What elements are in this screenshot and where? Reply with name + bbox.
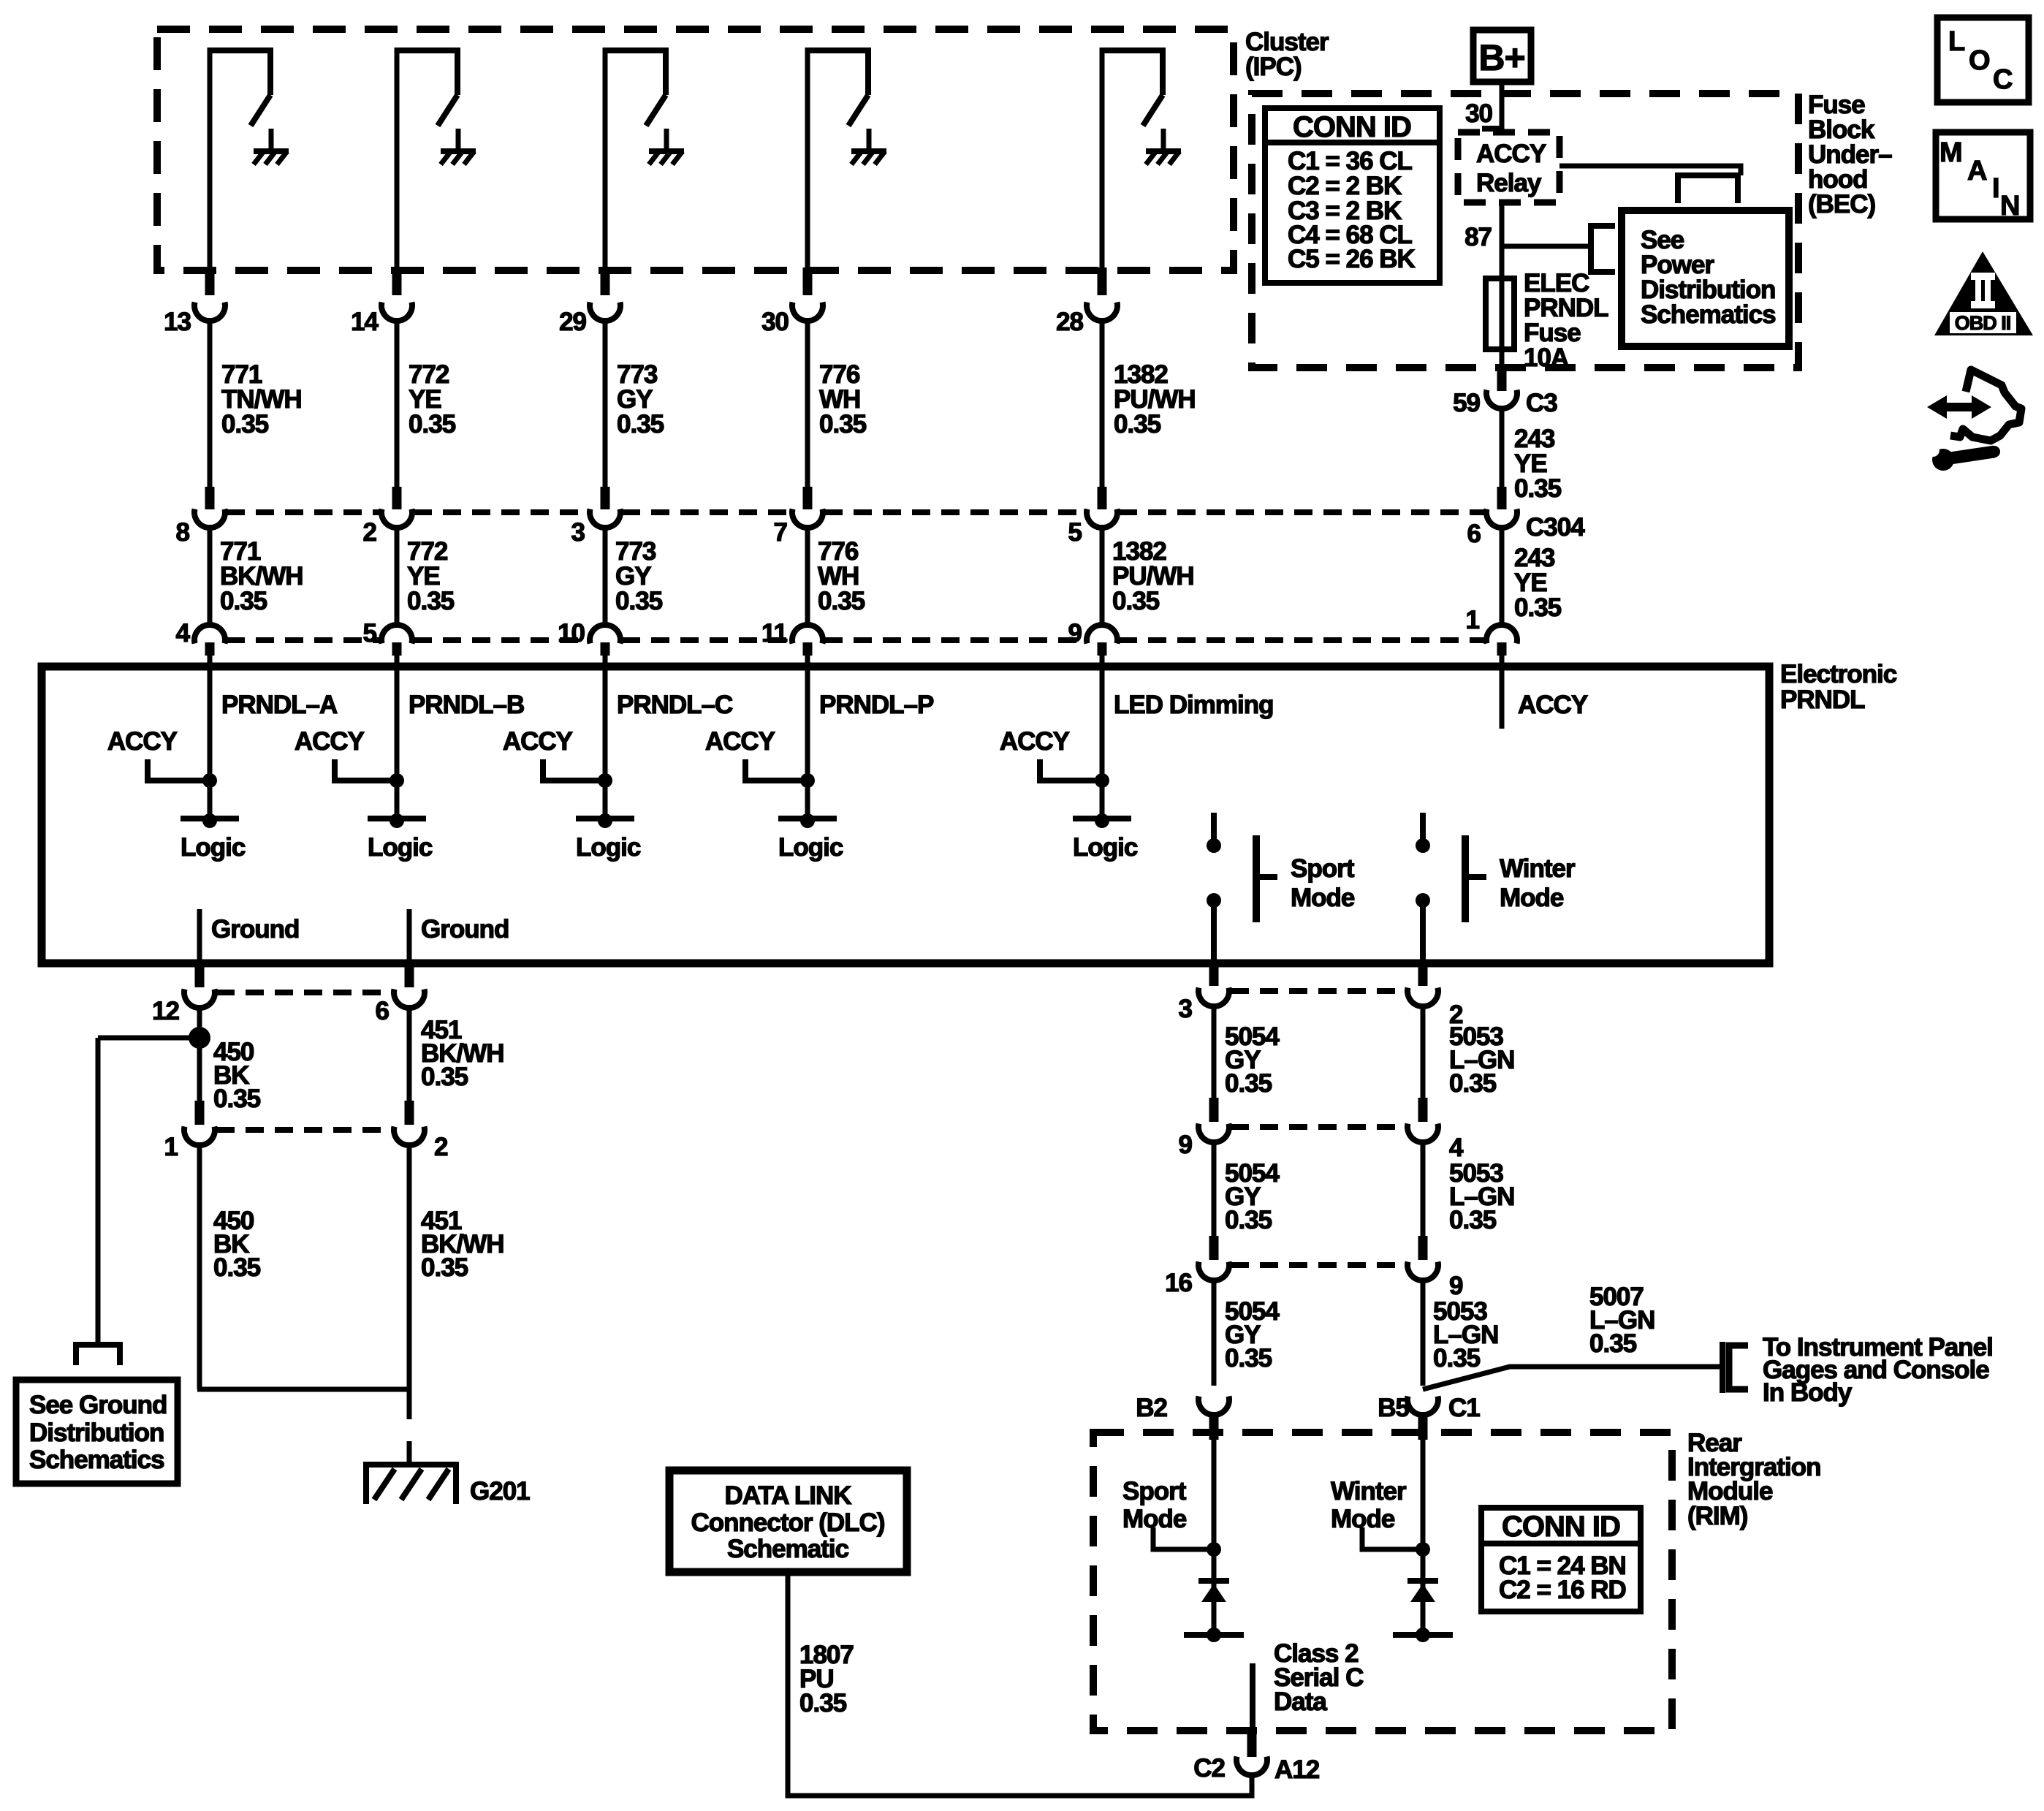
connector C2xx pin 29 (IPC) (559, 267, 620, 336)
internal logic node for PRNDL-C (576, 813, 641, 862)
wire 5054 GY 0.35 (segment 2) (1214, 1141, 1280, 1236)
svg-text:28: 28 (1056, 308, 1083, 336)
wire (internal) ACCY input stub (1500, 667, 1505, 729)
module box: Rear Intergration Module (RIM), dashed outline (1093, 1432, 1672, 1731)
wire (internal) LED Dimming input (1100, 667, 1105, 819)
wire 243 YE 0.35 (through C304 to module) (1502, 526, 1562, 625)
off-page connector to ground distribution (73, 1345, 123, 1365)
pin label 87 (1464, 223, 1492, 251)
relay: ACCY Relay, dashed outline (1458, 132, 1559, 202)
svg-text:0.35: 0.35 (799, 1689, 847, 1717)
wire 5054 GY 0.35 (segment 3) (1214, 1279, 1280, 1386)
connector C304 pin 11 (bottom) (761, 619, 823, 668)
svg-text:Schematics: Schematics (29, 1446, 164, 1474)
svg-text:C: C (1993, 64, 2013, 95)
label: Fuse Block Under-hood (BEC) (1808, 91, 1892, 219)
svg-text:1: 1 (164, 1133, 178, 1161)
svg-text:Logic: Logic (368, 833, 433, 862)
svg-text:A: A (1967, 156, 1987, 186)
svg-text:0.35: 0.35 (1225, 1069, 1272, 1098)
pin label ACCY (module power input) (1518, 691, 1588, 719)
wire (internal) PRNDL-A input (208, 667, 213, 819)
svg-text:ACCY: ACCY (295, 727, 365, 756)
icon: LOC reference box (1937, 18, 2029, 102)
switch SW1 (PRNDL contact 1) with ground inside cluster (208, 48, 289, 272)
svg-text:3: 3 (1179, 995, 1193, 1023)
wire 5054 GY 0.35 (segment 1) (1214, 1005, 1280, 1098)
icon: MAIN reference box (1936, 132, 2030, 221)
svg-text:13: 13 (164, 308, 191, 336)
power feed B+ (1473, 30, 1531, 82)
svg-text:Ground: Ground (211, 915, 299, 944)
wire 1382 PU/WH 0.35 (through C304) (1102, 526, 1194, 625)
connector C304 pin 6 (top, ACCY feed) (1467, 487, 1586, 548)
svg-text:0.35: 0.35 (220, 587, 267, 615)
svg-text:Ground: Ground (421, 915, 509, 944)
ground G201 (363, 1441, 530, 1506)
svg-text:7: 7 (774, 518, 787, 547)
connector C304 dashed body (bottom half) (227, 637, 1485, 643)
svg-text:29: 29 (559, 308, 586, 336)
svg-text:59: 59 (1453, 389, 1480, 417)
svg-text:A12: A12 (1274, 1755, 1320, 1784)
svg-text:C2: C2 (1193, 1754, 1225, 1782)
in-line connector dashes between pins 16 and 9 (1231, 1262, 1406, 1268)
svg-text:8: 8 (176, 518, 190, 547)
svg-text:(IPC): (IPC) (1245, 53, 1302, 81)
svg-text:0.35: 0.35 (1225, 1206, 1272, 1234)
wire: tap from 87 to power distribution (1502, 244, 1591, 249)
connector C304 dashed body (top half) (227, 509, 1485, 515)
connector C2xx pin 14 (IPC) (351, 267, 412, 336)
connector C2 / A12 (RIM serial data) (1193, 1733, 1319, 1784)
table: fuse block CONN ID (1265, 108, 1440, 283)
connector C304 pin 4 (bottom) (176, 619, 225, 668)
svg-text:4: 4 (1449, 1134, 1464, 1162)
internal logic node for LED Dimming (1073, 813, 1138, 862)
svg-text:14: 14 (351, 308, 379, 336)
svg-text:Mode: Mode (1500, 884, 1564, 912)
svg-text:N: N (2000, 191, 2019, 221)
connector pin 12 (module ground 1) (152, 965, 215, 1025)
svg-text:ACCY: ACCY (1476, 140, 1546, 168)
svg-text:Electronic: Electronic (1780, 660, 1897, 688)
svg-text:Distribution: Distribution (29, 1419, 164, 1447)
svg-text:Logic: Logic (778, 833, 843, 862)
internal Winter Mode sense (RIM) (1331, 1440, 1430, 1557)
svg-text:DATA LINK: DATA LINK (724, 1481, 851, 1510)
svg-text:C304: C304 (1526, 513, 1585, 542)
table: RIM CONN ID (1481, 1508, 1641, 1611)
svg-text:In Body: In Body (1763, 1378, 1853, 1407)
svg-text:30: 30 (761, 308, 789, 336)
wire 1382 PU/WH 0.35 (IPC pin 28 to C304) (1102, 319, 1196, 488)
label: Rear Intergration Module (RIM) (1687, 1429, 1820, 1530)
wire 1807 PU 0.35 (DLC to RIM connector A12) (788, 1572, 1252, 1796)
pin label PRNDL-B inside module (409, 691, 524, 719)
svg-text:(RIM): (RIM) (1687, 1502, 1747, 1530)
connector C304 pin 7 (top) (774, 487, 823, 547)
connector C304 pin 5 (top) (1068, 487, 1117, 547)
connector C304 pin 2 (top) (363, 487, 412, 547)
off-page connector (relay feed) to See Power Distribution (1675, 175, 1741, 203)
switch SW3 (PRNDL contact 3) with ground inside cluster (603, 48, 684, 272)
svg-text:9: 9 (1068, 619, 1082, 648)
wire 5053 L-GN 0.35 (segment 1) (1423, 1005, 1514, 1098)
svg-text:30: 30 (1465, 99, 1492, 128)
svg-text:2: 2 (363, 518, 377, 547)
svg-text:Winter: Winter (1500, 854, 1576, 883)
connector C304 pin 1 (bottom, ACCY feed) (1466, 606, 1517, 668)
wire 772 YE 0.35 (through C304) (397, 526, 455, 625)
svg-text:B2: B2 (1136, 1394, 1167, 1422)
svg-text:Schematics: Schematics (1641, 300, 1776, 329)
in-line connector dashes between pins 12 and 6 (216, 990, 392, 995)
svg-text:0.35: 0.35 (818, 587, 865, 615)
svg-text:ACCY: ACCY (1000, 727, 1070, 756)
connector B5 / C1 (RIM) (1378, 1394, 1480, 1440)
svg-text:Sport: Sport (1122, 1477, 1187, 1506)
switch SW5 (PRNDL contact 5) with ground inside cluster (1100, 48, 1181, 272)
svg-text:Schematic: Schematic (727, 1535, 849, 1563)
svg-text:4: 4 (176, 619, 191, 648)
label: Cluster (IPC) (1245, 28, 1329, 81)
svg-text:C2 = 16 RD: C2 = 16 RD (1499, 1576, 1626, 1604)
svg-text:0.35: 0.35 (819, 410, 867, 438)
svg-text:PRNDL–A: PRNDL–A (221, 691, 338, 719)
svg-text:5: 5 (1068, 518, 1082, 547)
off-page connector (87 tap) to See Power Distribution (1591, 226, 1615, 272)
wire 451 BK/WH 0.35 (pin 6 to connector 2) (409, 1006, 504, 1101)
svg-text:0.35: 0.35 (421, 1063, 468, 1091)
svg-text:Data: Data (1274, 1687, 1327, 1716)
svg-text:B+: B+ (1478, 37, 1524, 78)
wire 450 BK 0.35 (connector 1 to G201) (200, 1144, 261, 1389)
svg-text:2: 2 (434, 1133, 448, 1161)
module box: Electronic PRNDL (42, 667, 1769, 963)
internal ground wire 2 (409, 909, 509, 963)
svg-text:0.35: 0.35 (213, 1085, 261, 1113)
connector C2xx pin 13 (IPC) (164, 267, 225, 336)
svg-text:0.35: 0.35 (1449, 1069, 1497, 1098)
svg-text:Logic: Logic (576, 833, 641, 862)
svg-text:ACCY: ACCY (107, 727, 178, 756)
wire 776 WH 0.35 (through C304) (808, 526, 865, 625)
pin label PRNDL-P inside module (819, 691, 934, 719)
wire 773 GY 0.35 (through C304) (605, 526, 663, 625)
svg-text:M: M (1939, 137, 1962, 168)
svg-text:0.35: 0.35 (421, 1253, 468, 1282)
svg-text:12: 12 (152, 997, 179, 1025)
switch: Sport Mode (inside Electronic PRNDL) (1207, 813, 1355, 963)
svg-text:CONN ID: CONN ID (1293, 111, 1411, 143)
svg-text:CONN ID: CONN ID (1502, 1511, 1620, 1543)
connector C304 pin 3 (top) (571, 487, 620, 547)
svg-text:ACCY: ACCY (1518, 691, 1588, 719)
wire branch 450 BK to ground distribution (98, 1038, 194, 1342)
pin label PRNDL-A inside module (221, 691, 338, 719)
svg-text:6: 6 (376, 997, 390, 1025)
wire (internal) PRNDL-C input (603, 667, 608, 819)
connector pin 3 (Sport Mode output) (1179, 965, 1229, 1023)
svg-text:Logic: Logic (1073, 833, 1138, 862)
wire B+ to ACCY relay pin 30 (1482, 82, 1502, 132)
wire 5053 L-GN 0.35 (segment 2) (1423, 1141, 1514, 1236)
svg-text:0.35: 0.35 (617, 410, 664, 438)
internal ACCY pull-up for LED Dimming (1000, 727, 1109, 788)
svg-text:PRNDL–C: PRNDL–C (617, 691, 733, 719)
wire 5053 L-GN 0.35 (segment 3) (1423, 1279, 1498, 1386)
svg-text:0.35: 0.35 (1514, 593, 1562, 622)
svg-text:PRNDL: PRNDL (1780, 686, 1865, 714)
connector C2xx pin 28 (IPC) (1056, 267, 1117, 336)
svg-text:I: I (1992, 173, 1999, 204)
internal ACCY pull-up for PRNDL-P (705, 727, 815, 788)
svg-text:5: 5 (363, 619, 377, 648)
svg-text:Relay: Relay (1476, 169, 1542, 197)
svg-text:ACCY: ACCY (705, 727, 775, 756)
svg-text:Winter: Winter (1331, 1477, 1407, 1506)
svg-text:0.35: 0.35 (615, 587, 663, 615)
svg-text:L: L (1948, 26, 1965, 57)
svg-text:87: 87 (1464, 223, 1492, 251)
svg-text:0.35: 0.35 (1225, 1344, 1272, 1373)
connector 1 (ground harness) (164, 1101, 215, 1161)
svg-text:(BEC): (BEC) (1808, 190, 1875, 219)
svg-text:0.35: 0.35 (409, 410, 456, 438)
svg-text:Connector (DLC): Connector (DLC) (691, 1508, 885, 1537)
label: To Instrument Panel Gages and Console In Body (1763, 1333, 1993, 1407)
svg-text:0.35: 0.35 (221, 410, 269, 438)
connector pin 9 (Sport chain) (1179, 1098, 1229, 1159)
diode D-Sport (RIM) (1184, 1549, 1244, 1642)
internal ACCY pull-up for PRNDL-A (107, 727, 217, 788)
svg-text:0.35: 0.35 (1114, 410, 1161, 438)
diode D-Winter (RIM) (1393, 1549, 1453, 1642)
svg-text:0.35: 0.35 (1449, 1206, 1497, 1234)
svg-text:C5 = 26 BK: C5 = 26 BK (1288, 245, 1416, 273)
svg-text:C1: C1 (1448, 1394, 1480, 1422)
svg-text:0.35: 0.35 (1514, 474, 1562, 503)
connector pin 4 (Winter chain) (1407, 1098, 1464, 1162)
pin label PRNDL-C inside module (617, 691, 733, 719)
connector pin 2 (Winter Mode output) (1407, 965, 1463, 1029)
pin label 30 (1465, 99, 1492, 128)
connector C304 pin 9 (bottom) (1068, 619, 1117, 668)
svg-text:LED Dimming: LED Dimming (1114, 691, 1273, 719)
wire (internal) PRNDL-B input (395, 667, 400, 819)
svg-text:9: 9 (1449, 1272, 1463, 1300)
internal logic node for PRNDL-P (778, 813, 843, 862)
wire 450 BK 0.35 (pin 12 to splice and connector 1) (200, 1006, 261, 1113)
wire 771 TN/WH 0.35 (IPC pin 13 to C304) (210, 319, 302, 488)
svg-text:9: 9 (1179, 1131, 1193, 1159)
off-page connector to instrument panel gages (1722, 1342, 1748, 1393)
icon: diagnostic wrench symbol (1926, 370, 2021, 471)
wire 5007 L-GN 0.35 branch to instrument panel (1423, 1283, 1722, 1389)
wire 776 WH 0.35 (IPC pin 30 to C304) (808, 319, 867, 488)
reference box: DATA LINK Connector (DLC) Schematic (669, 1470, 907, 1572)
svg-text:O: O (1969, 45, 1990, 76)
switch: Winter Mode (inside Electronic PRNDL) (1416, 813, 1576, 963)
connector B2 (RIM) (1136, 1394, 1229, 1440)
svg-text:0.35: 0.35 (213, 1253, 261, 1282)
in-line connector dashes between pins 9 and 4 (1231, 1124, 1406, 1130)
splice S1 on wire 450 (189, 1027, 210, 1049)
internal logic node for PRNDL-A (181, 813, 246, 862)
wire 773 GY 0.35 (IPC pin 29 to C304) (605, 319, 664, 488)
svg-text:PRNDL–P: PRNDL–P (819, 691, 934, 719)
internal Sport Mode sense (RIM) (1122, 1440, 1221, 1557)
wire 772 YE 0.35 (IPC pin 14 to C304) (397, 319, 456, 488)
svg-text:See Ground: See Ground (29, 1391, 167, 1419)
internal ACCY pull-up for PRNDL-B (295, 727, 404, 788)
svg-text:Logic: Logic (181, 833, 246, 862)
internal ground wire 1 (200, 909, 299, 963)
icon: OBD II triangle (1934, 251, 2033, 335)
svg-text:Mode: Mode (1291, 884, 1355, 912)
wire 451 BK/WH 0.35 (connector 2 to G201) (197, 1144, 504, 1419)
svg-text:PRNDL–B: PRNDL–B (409, 691, 524, 719)
wire (internal) PRNDL-P input (805, 667, 810, 819)
connector C304 pin 8 (top) (176, 487, 225, 547)
wire: relay output to power distribution (1559, 166, 1741, 175)
connector C2xx pin 30 (IPC) (761, 267, 823, 336)
module box: Fuse Block Underhood (BEC), dashed outline (1252, 94, 1798, 368)
svg-text:ACCY: ACCY (503, 727, 573, 756)
connector C304 pin 5 (bottom) (363, 619, 412, 668)
reference box: See Power Distribution Schematics (1622, 210, 1789, 346)
connector pin 9 (Winter chain lower) (1407, 1236, 1463, 1300)
wire 243 YE 0.35 (C3 to C304) (1502, 409, 1562, 503)
svg-text:Sport: Sport (1291, 854, 1355, 883)
connector 59 / C3 (fuse block output) (1453, 368, 1557, 417)
wire: relay pin 87 to fuse (1500, 202, 1505, 280)
svg-text:0.35: 0.35 (1589, 1329, 1637, 1358)
svg-text:11: 11 (761, 619, 788, 648)
wire 771 BK/WH 0.35 (through C304) (210, 526, 303, 625)
svg-text:1: 1 (1466, 606, 1480, 634)
svg-text:OBD II: OBD II (1955, 312, 2011, 334)
label: Electronic PRNDL (1780, 660, 1897, 714)
in-line connector dashes between pins 1 and 2 (216, 1127, 392, 1133)
svg-text:6: 6 (1467, 520, 1481, 548)
internal Class 2 Serial Data wire (RIM) (1253, 1639, 1364, 1733)
pin label LED Dimming inside module (1114, 691, 1273, 719)
svg-text:0.35: 0.35 (1433, 1344, 1481, 1373)
connector C304 pin 10 (bottom) (558, 619, 620, 668)
connector 2 (ground harness) (394, 1101, 448, 1161)
svg-text:G201: G201 (470, 1477, 530, 1506)
connector pin 16 (Sport chain) (1165, 1236, 1229, 1297)
fuse: ELEC PRNDL Fuse 10A (1486, 269, 1608, 372)
connector pin 6 (module ground 2) (376, 965, 425, 1025)
switch SW2 (PRNDL contact 2) with ground inside cluster (395, 48, 476, 272)
switch SW4 (PRNDL contact 4) with ground inside cluster (805, 48, 886, 272)
svg-text:3: 3 (571, 518, 585, 547)
svg-text:0.35: 0.35 (407, 587, 455, 615)
internal ACCY pull-up for PRNDL-C (503, 727, 612, 788)
internal logic node for PRNDL-B (368, 813, 433, 862)
svg-text:10A: 10A (1524, 343, 1569, 372)
reference box: See Ground Distribution Schematics (16, 1380, 178, 1484)
svg-text:C3: C3 (1526, 389, 1557, 417)
svg-text:10: 10 (558, 619, 585, 648)
module box: Cluster (IPC), dashed outline (157, 29, 1234, 270)
in-line connector dashes between pins 3 and 2 (1231, 988, 1406, 994)
svg-text:16: 16 (1165, 1269, 1192, 1297)
svg-text:B5: B5 (1378, 1394, 1409, 1422)
svg-text:0.35: 0.35 (1112, 587, 1160, 615)
